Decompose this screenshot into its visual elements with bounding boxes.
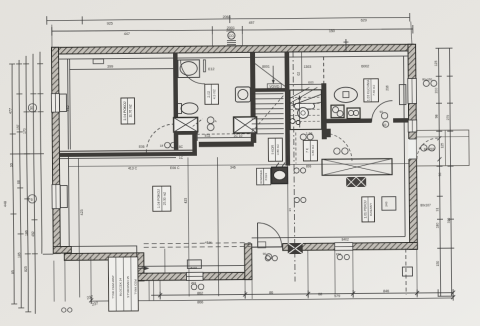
svg-text:925: 925 <box>107 22 113 26</box>
left ticks <box>9 64 45 312</box>
bottom-left lower wall (x63-142) <box>64 253 143 260</box>
stair diagonal cut line <box>251 96 283 132</box>
svg-text:91: 91 <box>435 207 439 211</box>
fireplace side label box <box>257 168 271 185</box>
hall-to-dining dashed door arc <box>324 133 352 161</box>
door room 2.04 dashed swing arc <box>146 124 174 152</box>
inner face line below top wall <box>59 56 408 59</box>
straight stair flight treads <box>251 94 283 134</box>
svg-text:80x150: 80x150 <box>422 77 432 81</box>
svg-text:216: 216 <box>385 85 389 91</box>
svg-text:90: 90 <box>29 106 33 110</box>
svg-text:CO: CO <box>229 34 234 38</box>
pantry diagonal <box>254 63 285 87</box>
wall between room 2.04 and bathroom <box>173 53 178 150</box>
window W5 center marks <box>337 255 342 260</box>
terrace door symbols <box>266 254 272 260</box>
svg-text:90: 90 <box>9 163 13 167</box>
room interior dim line <box>70 68 173 71</box>
living room label box <box>153 186 171 211</box>
shower / washing machine <box>235 87 250 102</box>
window W5 in bottom wall (dining) <box>335 243 353 251</box>
duct dashes <box>193 119 203 127</box>
svg-text:423: 423 <box>80 209 84 215</box>
extension lines from walls to bottom dims <box>54 246 417 303</box>
svg-text:477: 477 <box>9 108 13 114</box>
svg-text:34: 34 <box>288 208 292 212</box>
svg-text:346: 346 <box>230 166 236 170</box>
svg-text:7.60 m2: 7.60 m2 <box>372 85 376 96</box>
masonry pier with X at bottom wall <box>288 243 303 254</box>
extension lines top <box>51 25 53 48</box>
svg-text:170: 170 <box>23 128 27 134</box>
svg-text:2.02: 2.02 <box>207 91 211 98</box>
left step dim line <box>43 253 53 255</box>
vertical dim line <box>69 59 72 149</box>
slash ticks on bottom dim lines <box>89 291 455 303</box>
window W3 in right wall (hall sidelight) <box>408 120 417 132</box>
svg-text:TYNK CEM-WAP: TYNK CEM-WAP <box>111 275 115 298</box>
kitchen sink unit <box>331 105 344 118</box>
window W2 in right wall (kitchen) <box>408 78 417 103</box>
dim line L2 <box>52 28 413 32</box>
stair newel circles <box>290 90 322 130</box>
room 2.04 label box <box>121 98 135 124</box>
radiator under kitchen window <box>399 85 406 105</box>
dim line L1 <box>47 17 410 20</box>
small box right of dining label <box>382 197 396 211</box>
chimney block 2 <box>234 117 257 133</box>
svg-text:A: A <box>215 119 217 123</box>
corridor bottom wall <box>199 141 254 147</box>
toilet <box>176 104 181 114</box>
svg-text:VO/VD: VO/VD <box>269 85 280 89</box>
svg-text:157: 157 <box>16 124 20 130</box>
svg-text:452: 452 <box>31 231 35 237</box>
svg-text:E11: E11 <box>205 134 211 138</box>
radiator at window W6 <box>60 186 67 208</box>
entry door opening in right wall <box>408 139 417 159</box>
svg-text:310: 310 <box>447 218 451 224</box>
interior dim line vertical x78.5 (living) <box>78 158 79 297</box>
svg-text:80x107: 80x107 <box>420 203 431 207</box>
stairwell middle wall <box>285 52 290 142</box>
horizontal wall below top rooms <box>59 150 196 151</box>
svg-text:90: 90 <box>263 252 267 256</box>
svg-text:4.9 m2: 4.9 m2 <box>212 89 216 99</box>
radiator under window W1 <box>59 94 66 112</box>
svg-text:E06 C: E06 C <box>170 166 180 170</box>
svg-text:85: 85 <box>11 270 15 274</box>
bottom-left step wall horizontal (x52-70) <box>53 246 71 253</box>
kitchen bottom wall <box>322 118 372 123</box>
svg-text:DZIENNY: DZIENNY <box>369 203 373 216</box>
svg-text:88: 88 <box>17 180 21 184</box>
svg-text:6002: 6002 <box>361 64 369 68</box>
corridor dim line <box>197 136 250 138</box>
svg-text:846: 846 <box>383 289 389 293</box>
svg-text:E06: E06 <box>139 145 145 149</box>
svg-text:279: 279 <box>446 115 450 121</box>
svg-text:866: 866 <box>197 300 203 304</box>
inner face line above bottom-right wall <box>252 237 405 238</box>
svg-text:1.01 POKOJ: 1.01 POKOJ <box>363 200 367 218</box>
svg-text:203: 203 <box>191 281 196 285</box>
svg-text:E03: E03 <box>308 80 314 84</box>
top exterior wall <box>51 44 413 54</box>
fireplace stove box <box>272 167 288 184</box>
kitchen bottom wall right stub <box>393 118 409 123</box>
terrace door jamb box <box>258 242 266 248</box>
window W2 designator circles <box>423 80 429 86</box>
svg-text:425: 425 <box>184 198 188 204</box>
svg-text:399: 399 <box>107 65 113 69</box>
interior dim line horizontal y165 <box>69 164 409 167</box>
svg-text:8001: 8001 <box>262 65 270 69</box>
wall stub below chimney2 <box>251 133 257 143</box>
stair up arrow <box>298 95 300 127</box>
window W6 in left wall (living room) <box>52 185 60 209</box>
upper room outline bottom edge <box>289 83 321 85</box>
bottom wall right of terrace door (x282-416) <box>283 242 418 250</box>
entry door dashed arc <box>417 138 438 159</box>
wall band below chimney1 <box>174 131 198 135</box>
svg-text:84x203: 84x203 <box>424 147 435 151</box>
E01 circled marker <box>383 121 389 127</box>
interior vertical line x217.5 <box>217 157 218 296</box>
svg-text:98: 98 <box>435 114 439 118</box>
two X squares <box>346 177 366 187</box>
hall-kitchen door circles <box>300 134 306 140</box>
terrace door marks <box>265 256 270 261</box>
svg-text:11.76 m2: 11.76 m2 <box>128 104 132 117</box>
left exterior wall <box>51 47 60 253</box>
svg-text:180: 180 <box>436 222 440 228</box>
terrace door arc <box>258 223 282 247</box>
bathroom door leaf <box>203 60 205 72</box>
entry door labels <box>421 145 427 151</box>
note leader arrow <box>138 267 148 269</box>
svg-text:1.03 KUCHNIA: 1.03 KUCHNIA <box>366 79 370 101</box>
svg-text:E12: E12 <box>208 67 214 71</box>
svg-text:1.80 m2: 1.80 m2 <box>311 145 315 156</box>
vent pipe line through upper room <box>301 51 303 91</box>
svg-text:150: 150 <box>336 252 341 256</box>
kitchen table <box>334 87 357 102</box>
svg-text:413 C: 413 C <box>128 166 138 170</box>
dining label box <box>362 197 375 222</box>
svg-text:497: 497 <box>249 21 255 25</box>
svg-text:125: 125 <box>440 143 444 149</box>
svg-text:8402: 8402 <box>342 238 349 242</box>
svg-text:E0: E0 <box>383 123 387 127</box>
svg-text:448: 448 <box>3 201 7 207</box>
f mark on top wall <box>345 39 347 51</box>
bathroom label box <box>205 84 219 104</box>
svg-text:02: 02 <box>297 72 301 76</box>
window W1 in left wall <box>51 94 59 113</box>
svg-text:862: 862 <box>197 291 203 295</box>
stairwell right / kitchen left wall (lower solid part) <box>321 83 326 122</box>
extension line x287.5 <box>286 156 289 244</box>
kitchen door arc <box>371 101 392 122</box>
corridor north dashed opening <box>197 133 251 135</box>
bathroom right wall <box>250 52 256 118</box>
svg-text:KOMINEK: KOMINEK <box>259 170 263 184</box>
inner face line right of left wall <box>67 59 70 149</box>
entry porch <box>416 130 469 166</box>
drain dashed line bottom right <box>405 249 407 295</box>
wall between pantry and stairs <box>250 88 286 92</box>
dashed opening edge above kitchen wall <box>323 57 325 83</box>
radiator above window W4 <box>187 260 201 269</box>
svg-text:1.04 POKOJ: 1.04 POKOJ <box>157 189 161 208</box>
right exterior wall upper <box>408 44 417 249</box>
svg-text:2064: 2064 <box>223 15 231 19</box>
chimney vent symbol above wall <box>226 29 236 45</box>
svg-text:68: 68 <box>318 292 322 296</box>
svg-text:8402: 8402 <box>190 266 197 270</box>
step-down jog wall (x136-143) <box>137 253 144 281</box>
svg-text:90: 90 <box>438 172 442 176</box>
inner face line above bottom-left wall <box>69 245 245 267</box>
bottom terrace wall (x143-250, y272-280) <box>137 272 251 280</box>
sideboard counter with X <box>322 159 392 176</box>
svg-text:STYROPIAN 15: STYROPIAN 15 <box>126 276 130 298</box>
corridor vent symbols <box>207 117 214 124</box>
svg-text:893: 893 <box>306 164 312 168</box>
svg-text:186: 186 <box>25 230 29 236</box>
svg-text:6: 6 <box>31 198 33 202</box>
svg-text:BLOCZEK 24: BLOCZEK 24 <box>118 278 122 297</box>
svg-text:200: 200 <box>434 87 438 93</box>
svg-text:1303: 1303 <box>304 65 312 69</box>
washbasin cabinet <box>178 60 200 78</box>
svg-text:185: 185 <box>17 252 21 258</box>
svg-text:240: 240 <box>384 201 388 206</box>
corridor west wall <box>192 134 197 154</box>
kitchen door symbols <box>381 113 387 119</box>
hall lower walls <box>285 134 290 166</box>
kitchen stove <box>347 108 360 119</box>
svg-text:TYNK CEM: TYNK CEM <box>134 279 138 295</box>
bathroom door arc <box>181 60 205 84</box>
inner face line below wall B <box>59 158 175 159</box>
svg-text:1.06: 1.06 <box>306 132 313 136</box>
svg-text:150: 150 <box>436 261 440 267</box>
svg-text:86: 86 <box>269 291 273 295</box>
terrace door opening (x251-282) <box>252 246 283 248</box>
window W4 in bottom terrace wall <box>186 272 203 280</box>
svg-text:579: 579 <box>334 294 340 298</box>
jog up wall (x244-251) <box>245 244 253 280</box>
svg-text:2.04 POKOJ: 2.04 POKOJ <box>123 101 127 120</box>
svg-text:18: 18 <box>160 144 164 148</box>
winder stairs radiating treads <box>289 87 321 106</box>
svg-text:P.024: P.024 <box>264 173 268 181</box>
svg-text:9 KOR: 9 KOR <box>271 144 275 154</box>
kitchen label box <box>364 79 379 102</box>
inner face line left of right wall <box>404 56 406 236</box>
svg-text:629: 629 <box>361 18 367 22</box>
dashed opening edge <box>295 133 297 164</box>
svg-text:3.80 m2: 3.80 m2 <box>276 144 280 155</box>
svg-text:150: 150 <box>329 29 335 33</box>
svg-text:125: 125 <box>434 60 438 66</box>
svg-text:2C 10: 2C 10 <box>234 134 243 138</box>
svg-text:825: 825 <box>24 266 28 272</box>
small circled pair near fireplace <box>294 168 299 173</box>
window W4 center marks <box>191 284 197 290</box>
bottom main dim lines <box>151 293 453 296</box>
ticks on y165 line <box>276 163 279 167</box>
svg-text:90: 90 <box>380 110 384 114</box>
interior dim line vertical x188 <box>188 157 189 296</box>
svg-text:447: 447 <box>124 32 130 36</box>
svg-text:25.30 m2: 25.30 m2 <box>163 192 167 206</box>
chimney block 1 <box>174 117 198 132</box>
radiator below top wall at bathroom <box>93 59 104 64</box>
